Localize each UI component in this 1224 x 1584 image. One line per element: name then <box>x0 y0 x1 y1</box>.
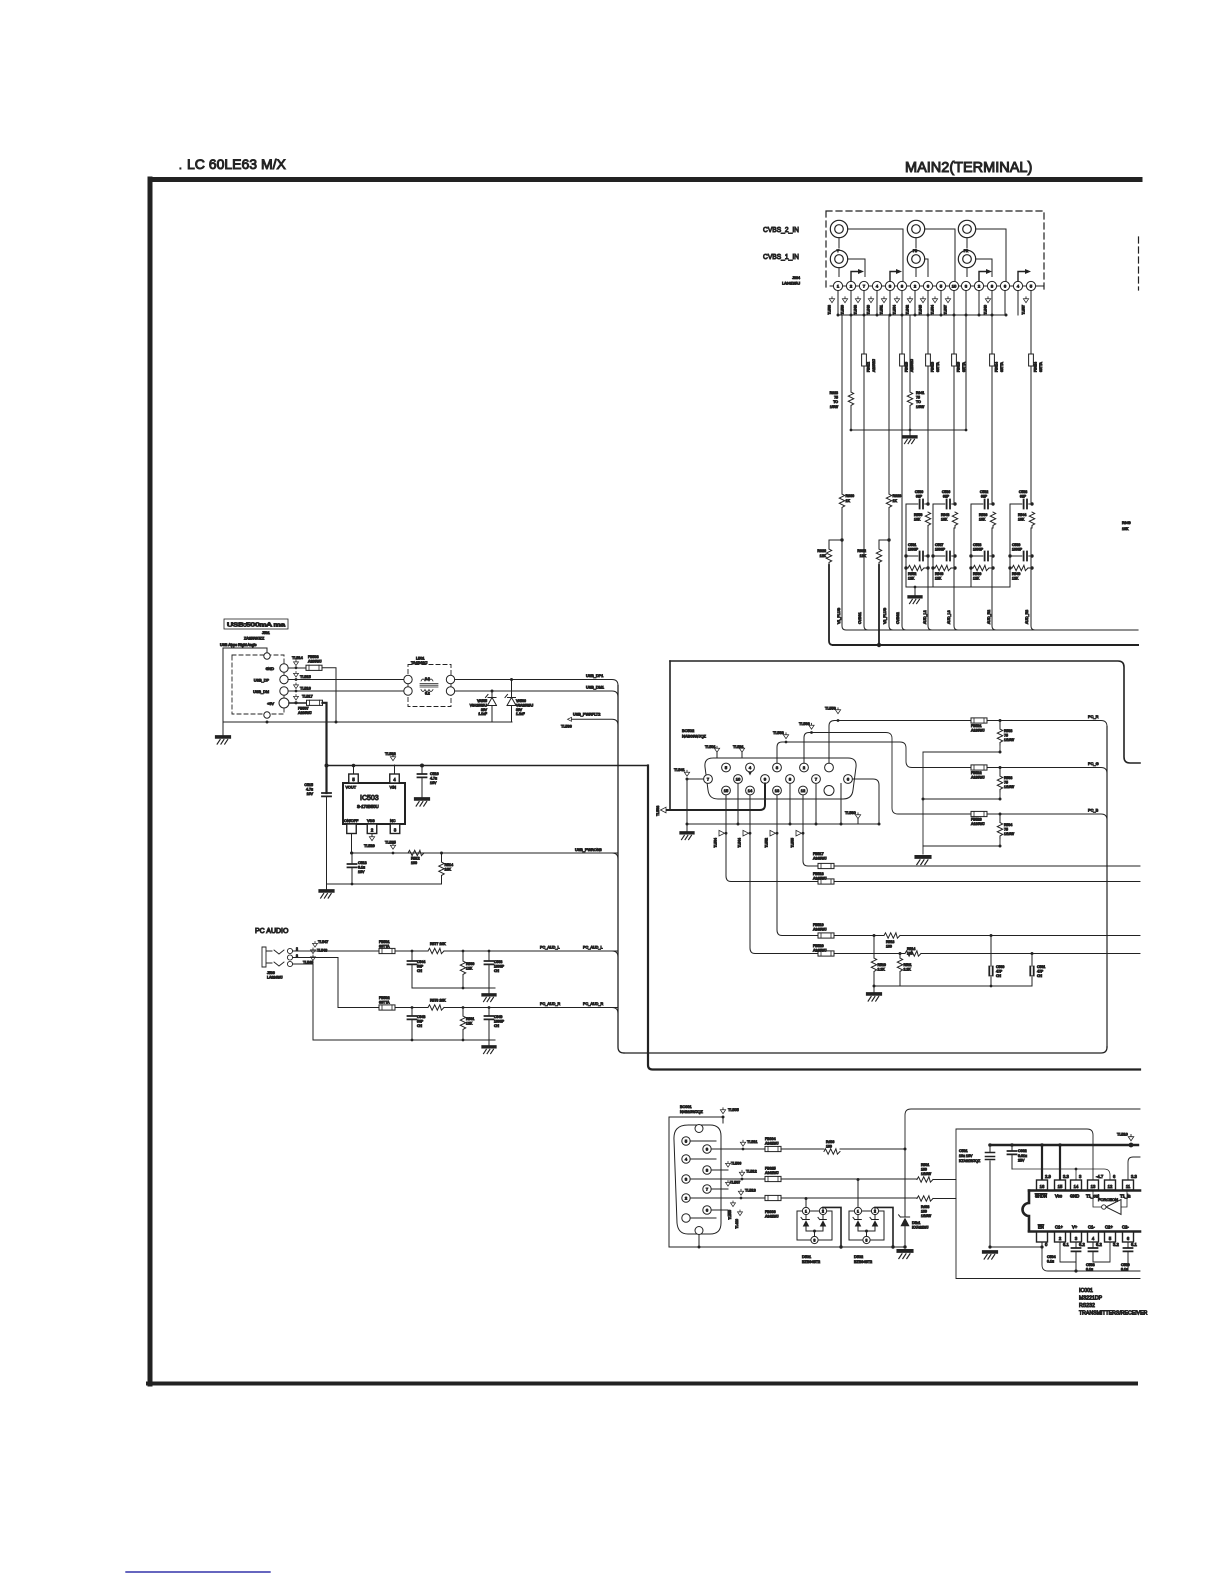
svg-text:R94175TO1/6W: R94175TO1/6W <box>916 391 925 409</box>
pin BC502 mid pin 7 <box>812 775 821 784</box>
svg-text:FB507A209WJ: FB507A209WJ <box>298 707 312 716</box>
svg-text:R55212K: R55212K <box>908 572 916 581</box>
wire R930 to R926 <box>829 540 842 549</box>
wire TL501 stub <box>716 753 718 759</box>
pin J004 pin 12 <box>974 281 983 290</box>
pin IC001 bottom pin 6 <box>1123 1232 1134 1242</box>
svg-text:USB_DM1: USB_DM1 <box>586 686 604 690</box>
wire pin9 wire3 <box>781 1148 824 1150</box>
node rail c002 node <box>1010 1143 1014 1147</box>
test point TL513 <box>738 1189 743 1195</box>
resistor R513 100 <box>884 933 900 938</box>
node C533 node L <box>969 554 972 557</box>
svg-text:TL560: TL560 <box>845 811 856 815</box>
resistor R546 12K <box>935 565 951 570</box>
resistor R406 100 <box>824 1149 840 1154</box>
pin IC503 pin onoff <box>347 824 357 834</box>
svg-text:TA154WJ: TA154WJ <box>411 661 427 665</box>
arrow into pin4 <box>748 772 752 776</box>
wire TL541 to pin7 <box>687 778 704 780</box>
node rail dot x790 <box>789 823 792 826</box>
IC503 regulator body <box>343 783 405 824</box>
svg-text:TL566: TL566 <box>799 722 810 726</box>
svg-text:BC001NAB10WJQZ: BC001NAB10WJQZ <box>680 1105 703 1114</box>
ferrite bead FB517 A249WJ <box>818 863 834 868</box>
ferrite bead FB523 A189WJ <box>971 811 987 816</box>
svg-text:10K: 10K <box>1122 527 1129 531</box>
svg-text:C5040.1u: C5040.1u <box>1047 1255 1056 1264</box>
wire pin13 to FB519 <box>777 833 818 935</box>
shield box left edge <box>669 661 671 810</box>
node rail junction x979 <box>978 314 981 317</box>
hsync out <box>991 935 1140 937</box>
node C532 top node <box>991 502 994 505</box>
svg-text:USB_PWRON6: USB_PWRON6 <box>575 848 602 852</box>
test point TL556 <box>835 708 840 714</box>
signal arrow pin2>3 <box>851 272 860 282</box>
wire R560 bottom <box>462 977 464 988</box>
wire pin9 wire2 <box>743 1148 765 1150</box>
svg-text:R92612K: R92612K <box>817 549 826 558</box>
RC groups common rail <box>906 586 1010 588</box>
svg-text:R514100: R514100 <box>907 947 915 956</box>
wire CVBS_1 jack center to pin1 <box>838 268 840 277</box>
svg-text:3.3: 3.3 <box>1131 1174 1137 1179</box>
node VA junction DM <box>491 690 494 693</box>
svg-text:C5311000P: C5311000P <box>908 543 919 552</box>
node C539 node P <box>1030 554 1033 557</box>
pin USB shell pin top <box>264 653 270 659</box>
resistor R536 10K <box>990 512 995 528</box>
svg-text:TL506: TL506 <box>731 1162 741 1166</box>
wire pin15 to FB518 <box>726 833 818 881</box>
node rail dot d502 <box>891 1245 894 1248</box>
node gnd drop node <box>922 798 925 801</box>
wire AUD_R3 wire <box>1031 315 1035 630</box>
capacitor C508 C1- <box>1089 1248 1098 1251</box>
test point TL516 <box>294 683 299 689</box>
pin DB9 pin 1 <box>682 1214 690 1222</box>
test point TL544 <box>743 830 749 836</box>
svg-text:R53610K: R53610K <box>979 513 987 522</box>
wire C516 lead <box>421 766 423 775</box>
svg-text:VSS: VSS <box>367 819 375 823</box>
wire pin3 wire <box>690 1178 742 1180</box>
pin IC503 pin4 <box>390 774 400 783</box>
svg-text:12: 12 <box>1108 1184 1113 1189</box>
node C516 node <box>420 764 424 768</box>
wire pin stub x851 <box>850 291 852 315</box>
pin IC001 bottom pin EN <box>1037 1232 1048 1242</box>
node R583 node <box>999 719 1002 722</box>
pin DB9 pin 8 <box>703 1166 711 1174</box>
test point TL567 <box>945 297 950 303</box>
wire C540 bottom <box>488 1019 490 1040</box>
bottom-left blue mark <box>126 1571 270 1573</box>
wire L wire <box>395 950 618 952</box>
wire jack PB stub <box>915 238 917 248</box>
ferrite bead FB518 A249WJ <box>818 879 834 884</box>
node R561 top node <box>462 1006 465 1009</box>
test point TL560 <box>855 813 860 819</box>
ferrite bead FB521 A189WJ <box>971 718 987 723</box>
ground audio R <box>483 1047 495 1054</box>
wire jack to L <box>293 950 379 952</box>
wire USB DM wire <box>288 690 403 692</box>
wire pin4 to rail <box>394 765 396 774</box>
svg-text:C54456PCH: C54456PCH <box>417 960 425 973</box>
svg-text:V1_PLUG: V1_PLUG <box>837 608 841 624</box>
svg-text:PR: PR <box>964 249 969 253</box>
pin J004 pin 1 <box>833 281 842 290</box>
IC503 gnd rail <box>327 883 442 885</box>
wire C002 top <box>1011 1145 1013 1151</box>
wire R539 leads <box>971 567 993 569</box>
node C531 node P <box>926 554 929 557</box>
pin DB9 pin 4 <box>682 1155 690 1163</box>
RC group C532 <box>969 490 995 587</box>
capacitor C544 56P <box>408 961 417 964</box>
node rail c501 node <box>988 1143 992 1147</box>
wire C540 top <box>488 1008 490 1017</box>
DDC line 2 <box>834 881 1140 883</box>
node hsync node <box>873 934 876 937</box>
svg-text:TL509: TL509 <box>728 1210 732 1220</box>
test point TL532 <box>390 755 395 761</box>
node R gnd node <box>411 1039 414 1042</box>
svg-text:TL552: TL552 <box>765 838 769 848</box>
pin J004 pin 7 <box>910 281 919 290</box>
wire R gnd stub <box>488 1040 490 1046</box>
test point TL514 <box>294 660 299 666</box>
svg-text:R578 10K: R578 10K <box>430 999 446 1003</box>
wire AUD_R2 wire <box>992 315 996 630</box>
svg-text:BC502NAB09WJQZ: BC502NAB09WJQZ <box>682 728 707 738</box>
svg-text:.: . <box>179 161 182 172</box>
wire EN drop <box>1041 1242 1043 1247</box>
node R552 node L <box>904 566 907 569</box>
capacitor C563 1000P <box>485 961 494 964</box>
wire R512 leads <box>405 852 442 854</box>
svg-text:CVBS2: CVBS2 <box>896 612 900 624</box>
svg-text:LC 60LE63 M/X: LC 60LE63 M/X <box>187 156 286 172</box>
svg-text:TL534: TL534 <box>714 838 718 848</box>
capacitor C516 4.7u 16V <box>418 774 427 777</box>
node rail dot shell <box>698 1246 701 1249</box>
ferrite bead FB006 A242WJ <box>765 1195 781 1200</box>
wire pin6 loop <box>852 779 879 824</box>
pin USB GND pin <box>280 664 288 672</box>
wire AUD_L3 wire <box>954 315 958 630</box>
test point TL549 <box>311 955 316 961</box>
ferrite bead FB915 <box>900 354 905 366</box>
connector BC502 VGA outline <box>705 758 856 799</box>
pin BC502 bot blank <box>824 786 834 796</box>
svg-text:11: 11 <box>1126 1184 1131 1189</box>
pin DB9 shell top <box>695 1125 703 1133</box>
pin BC502 mid pin 9 <box>761 775 770 784</box>
wire pin3 wire2 <box>742 1178 765 1180</box>
pin J004 pin 13 <box>987 281 996 290</box>
svg-text:ZA259WJZZ: ZA259WJZZ <box>244 637 265 641</box>
node rail dot x738 <box>737 823 740 826</box>
wire C532 lead <box>971 503 993 505</box>
resistor R403 100 <box>917 1196 933 1201</box>
wire gnd stub cvbs <box>909 430 911 436</box>
svg-text:AUD_L3: AUD_L3 <box>947 610 951 624</box>
node 5V rail node <box>325 764 329 768</box>
test point TL410 <box>738 1210 743 1216</box>
capacitor C560 47P <box>989 967 992 976</box>
vsync out <box>1032 953 1140 955</box>
RCA jack PR lower <box>958 250 975 267</box>
node D501 node <box>805 1197 808 1200</box>
svg-text:FB50160TTA: FB50160TTA <box>379 940 390 949</box>
capacitor C501 10u 16V (polar) <box>986 1153 995 1160</box>
wire C563 bottom <box>488 964 490 988</box>
pin L501 pin3 <box>446 675 454 683</box>
ground sync <box>868 994 881 1001</box>
svg-text:TL556: TL556 <box>825 707 836 711</box>
svg-text:TL544: TL544 <box>738 838 742 848</box>
wire pin7 stub <box>711 1188 728 1190</box>
svg-text:J004LA041WAJ: J004LA041WAJ <box>782 276 800 285</box>
svg-text:TL564: TL564 <box>931 305 935 315</box>
wire C513 bottom <box>351 867 353 884</box>
wire pin5 stub <box>690 1140 716 1142</box>
wire jack PR stub <box>966 238 968 248</box>
svg-text:R593751/16W: R593751/16W <box>1004 776 1015 789</box>
ground IC001 gnd <box>984 1252 997 1259</box>
svg-text:CVBS_1_IN: CVBS_1_IN <box>763 252 799 261</box>
node pin5 node <box>352 764 356 768</box>
wire USB_DP1 to bus <box>455 680 618 686</box>
node R549 node L <box>1008 566 1011 569</box>
svg-text:TL532: TL532 <box>385 752 396 756</box>
node gnd rail j1 <box>850 429 853 432</box>
USB ground rail <box>223 721 512 723</box>
svg-text:L501: L501 <box>416 657 424 661</box>
capacitor C530 68P <box>920 500 923 509</box>
wire R wire <box>395 1007 618 1009</box>
wire PC_B riser <box>804 733 812 764</box>
resistor R932 12K <box>876 549 881 565</box>
svg-text:C1+: C1+ <box>1055 1225 1063 1230</box>
wire C536 loop left <box>932 504 934 587</box>
svg-text:AUD_R2: AUD_R2 <box>987 610 991 624</box>
wire C563 top <box>488 951 490 961</box>
resistor R561 12K <box>460 1016 465 1032</box>
svg-text:R9281K: R9281K <box>893 494 902 503</box>
wire R513 leads <box>874 935 991 937</box>
node C501 gnd node <box>988 1245 991 1248</box>
node R583 bot node <box>999 751 1002 754</box>
wire C544 bottom <box>412 964 495 988</box>
svg-text:FB50260TTA: FB50260TTA <box>379 996 390 1005</box>
bus joins <box>612 853 618 1014</box>
svg-text:R4031001/10W: R4031001/10W <box>921 1205 932 1218</box>
wire pin stub x877 <box>876 291 878 315</box>
svg-text:TL521: TL521 <box>733 745 744 749</box>
svg-text:FB912: FB912 <box>867 362 871 372</box>
svg-text:D502BZB948T2: D502BZB948T2 <box>854 1255 872 1264</box>
capacitor C540 1000P <box>485 1016 494 1019</box>
pin IC001 bottom pin 5 <box>1105 1232 1116 1242</box>
pin BC502 bot pin 15 <box>722 786 731 795</box>
svg-text:C5631000PCH: C5631000PCH <box>494 960 505 973</box>
capacitor C536 68P <box>947 500 950 509</box>
PC RGB common vertical <box>1106 727 1108 1048</box>
node C563 top node <box>488 950 491 953</box>
node D502 node <box>857 1178 860 1181</box>
pin9 shield thick wire <box>666 784 765 811</box>
svg-text:R56112K: R56112K <box>466 1017 474 1026</box>
node C538 top node <box>1030 502 1033 505</box>
svg-text:Y: Y <box>837 249 840 253</box>
bypass return line <box>1042 1247 1140 1271</box>
svg-text:AUD_L2: AUD_L2 <box>923 610 927 624</box>
svg-text:FORCEON: FORCEON <box>1098 1197 1118 1202</box>
svg-text:VIN: VIN <box>390 786 397 790</box>
wire pin2 wire4 <box>933 1198 956 1200</box>
wire V1_PLUG wire <box>842 315 846 630</box>
wire EN wire <box>990 1246 1042 1248</box>
RGB gnd drop <box>922 752 924 854</box>
svg-text:TL554: TL554 <box>893 305 897 315</box>
resistor R552 12K <box>908 565 924 570</box>
svg-text:R577 10K: R577 10K <box>430 942 446 946</box>
node C539 node L <box>1008 554 1011 557</box>
capacitor C507 V+ <box>1072 1248 1081 1251</box>
node R930 node <box>840 538 843 541</box>
wire mid pin stub x790 <box>789 784 791 825</box>
svg-text:14: 14 <box>1074 1184 1079 1189</box>
wire R926 bottom thick <box>829 565 833 645</box>
test point TL547 <box>313 942 318 948</box>
svg-text:TL540: TL540 <box>867 305 871 315</box>
svg-text:R406100: R406100 <box>826 1140 834 1149</box>
svg-text:J501: J501 <box>262 631 270 635</box>
pin BC502 bot pin 12 <box>799 786 808 795</box>
wire vsync wire <box>834 953 900 955</box>
svg-text:C5080.1u: C5080.1u <box>1086 1263 1095 1272</box>
test point TL548 <box>855 297 860 303</box>
wire pin4 stub <box>690 1158 716 1160</box>
svg-text:0.2: 0.2 <box>425 677 430 681</box>
wire CVBS2 wire <box>902 315 906 630</box>
wire USB shell left <box>222 648 224 722</box>
ground IC503 <box>320 891 333 898</box>
node rail junction x902 <box>901 314 904 317</box>
zener diode D5 KXA82WJ <box>899 1149 910 1247</box>
svg-text:R54912K: R54912K <box>1012 572 1020 581</box>
node R561 bot node <box>462 1039 465 1042</box>
wire pin6 stub <box>711 1210 728 1216</box>
wire R549 leads <box>1010 567 1032 569</box>
resistor R560 12K <box>460 961 465 977</box>
wire CVBS_2 jack to pin8 <box>848 229 903 281</box>
wire USB DP wire <box>288 679 403 681</box>
capacitor C538 68P <box>1024 500 1027 509</box>
svg-text:FB519A249WJ: FB519A249WJ <box>813 923 827 932</box>
node R546 node L <box>931 566 934 569</box>
node TL534 node <box>725 832 728 835</box>
svg-text:GND: GND <box>266 667 275 671</box>
svg-text:C0020.01u25V: C0020.01u25V <box>1018 1149 1027 1163</box>
svg-text:TL510: TL510 <box>1117 1133 1128 1137</box>
svg-text:TL517: TL517 <box>302 695 313 699</box>
node TL513 node <box>740 1197 743 1200</box>
test point TL506 <box>726 1162 731 1168</box>
signal arrow pin5>6 <box>890 272 898 282</box>
wire mid pin stub x841 <box>840 784 842 825</box>
svg-text:TL505: TL505 <box>728 1108 739 1112</box>
resistor R544 10K <box>1029 512 1034 528</box>
resistor R577 10K <box>428 948 444 953</box>
L gnd rail <box>412 987 489 989</box>
wire pin stub x1031 <box>1030 291 1032 315</box>
pin BC502 bot pin 14 <box>746 786 755 795</box>
5V thick line down and right <box>648 766 1140 1070</box>
wire USB shell top <box>223 648 267 653</box>
wire C513 top <box>351 853 353 864</box>
wire pin14 to FB520 <box>750 833 818 953</box>
ferrite bead FB916 <box>952 354 957 366</box>
wire R561 bottom <box>462 1032 464 1040</box>
wire pin3 wire3 <box>781 1178 917 1180</box>
ferrite bead FB503 A209WJ <box>306 665 322 670</box>
svg-text:R51410K: R51410K <box>445 863 454 872</box>
svg-text:T1_in: T1_in <box>1120 1194 1131 1199</box>
svg-text:V+: V+ <box>1072 1225 1078 1230</box>
wire PB upper jack to pin10 <box>925 229 955 281</box>
wire TL534 drop <box>725 795 727 833</box>
svg-text:TL525: TL525 <box>385 841 396 845</box>
ferrite bead FB912 <box>862 354 867 366</box>
wire R941 stub <box>909 315 911 392</box>
svg-text:R54612K: R54612K <box>935 572 943 581</box>
pin IC503 pin5 <box>349 774 359 783</box>
resistor R512 100 <box>408 850 424 855</box>
test point TL541 <box>684 770 689 776</box>
svg-text:2: 2 <box>296 947 298 951</box>
svg-text:PC AUDIO: PC AUDIO <box>255 928 289 935</box>
svg-text:6.1: 6.1 <box>1063 1242 1069 1247</box>
test point TL508 arrow <box>661 807 667 813</box>
pin IC001 bottom pin 3 <box>1071 1232 1082 1242</box>
node rail junction x877 <box>876 314 879 317</box>
svg-text:PC_R: PC_R <box>1088 714 1099 719</box>
ON/OFF net <box>352 852 442 854</box>
svg-text:3.2: 3.2 <box>1113 1242 1119 1247</box>
VIN rail <box>327 765 649 767</box>
node DM node <box>295 690 298 693</box>
wire USB_DM1 to bus <box>455 691 618 697</box>
page border frame <box>150 177 1140 182</box>
svg-text:FB924: FB924 <box>1034 362 1038 372</box>
resistor R923 75 <box>848 392 853 408</box>
node C533 node P <box>991 554 994 557</box>
resistor R549 12K <box>1012 565 1028 570</box>
resistor R514 100 <box>905 951 921 956</box>
wire C536 lead <box>933 503 955 505</box>
pin IC001 bottom pin 4 <box>1088 1232 1099 1242</box>
RCA jack PB upper <box>907 220 924 237</box>
svg-text:15: 15 <box>724 788 729 793</box>
test point TL540 <box>868 297 873 303</box>
test point TL534 <box>719 830 725 836</box>
node rail dot x841 <box>840 823 843 826</box>
